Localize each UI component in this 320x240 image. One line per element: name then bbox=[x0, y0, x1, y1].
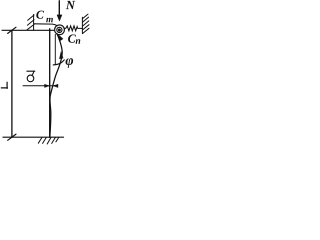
small arrow at top of deflected line bbox=[58, 35, 63, 41]
angle phi arc arrow bbox=[53, 60, 64, 65]
label N bbox=[66, 1, 76, 9]
label m subscript of Cm bbox=[46, 18, 53, 22]
spiral spring link bar to wall bbox=[34, 24, 57, 26]
force N arrow bbox=[58, 1, 60, 16]
label L (rotated) bbox=[1, 82, 7, 88]
dimension line L (vertical) bbox=[11, 30, 13, 137]
label delta bbox=[27, 71, 35, 82]
delta dimension line bbox=[23, 85, 58, 87]
ground line bbox=[3, 136, 64, 138]
spring Cn zigzag bbox=[64, 26, 82, 31]
label n subscript of Cn bbox=[76, 39, 81, 44]
rotational spring Cm (spiral hinge) bbox=[55, 25, 65, 35]
vertical reference line below pivot bbox=[54, 34, 56, 64]
deflected column curve bbox=[50, 34, 62, 138]
label C of Cm bbox=[36, 11, 44, 19]
top reference line bbox=[2, 29, 54, 31]
dimension tick bottom bbox=[8, 134, 16, 140]
ground hatching bbox=[38, 137, 59, 144]
original column axis (vertical) bbox=[49, 29, 51, 137]
dimension tick top bbox=[8, 27, 16, 33]
label phi bbox=[66, 58, 74, 68]
label C of Cn bbox=[68, 35, 76, 43]
wall anchor of Cm (left wall) bbox=[27, 14, 34, 30]
wall anchor of Cn (right wall) bbox=[82, 14, 89, 33]
